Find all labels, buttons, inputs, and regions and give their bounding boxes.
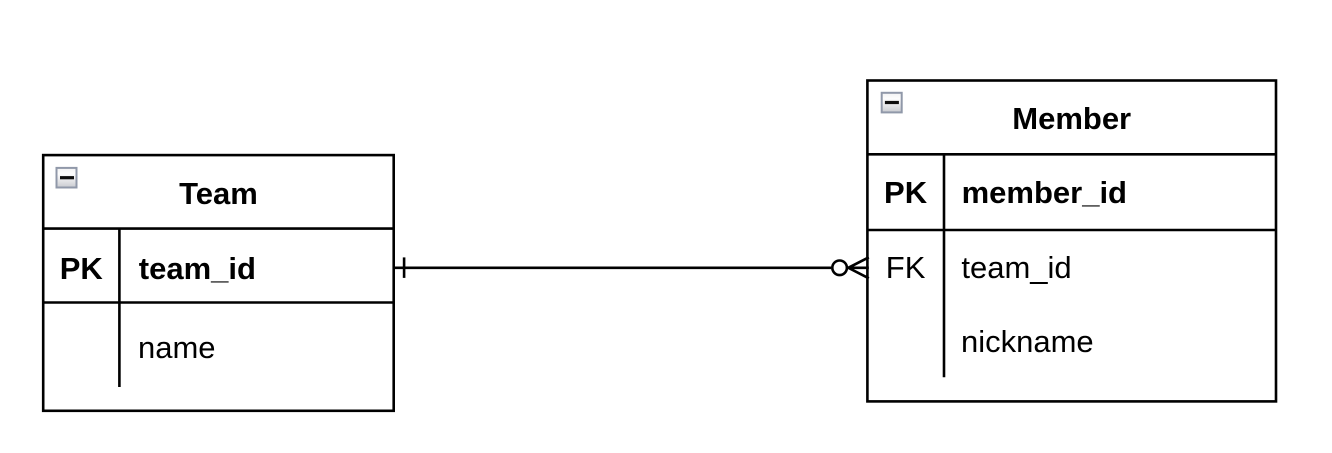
Member row3 field nickname bbox=[961, 324, 1094, 359]
one marker tick at Team end bbox=[403, 257, 406, 278]
svg-text:name: name bbox=[138, 330, 216, 365]
Team row2 field name bbox=[138, 330, 216, 365]
Member row1 field member_id bbox=[962, 175, 1127, 210]
svg-text:Team: Team bbox=[179, 176, 258, 211]
svg-text:team_id: team_id bbox=[961, 250, 1071, 285]
Member title bbox=[1012, 101, 1131, 136]
svg-text:team_id: team_id bbox=[139, 251, 256, 286]
entity Team outline bbox=[43, 155, 394, 411]
Team row1 field team_id bbox=[139, 251, 256, 286]
Member row2 key label FK bbox=[886, 250, 926, 285]
Team PK column divider bbox=[118, 229, 121, 387]
entity Member outline bbox=[867, 81, 1276, 402]
svg-text:member_id: member_id bbox=[962, 175, 1127, 210]
Team collapse button bbox=[57, 168, 77, 188]
svg-text:PK: PK bbox=[60, 251, 104, 286]
svg-text:PK: PK bbox=[884, 175, 928, 210]
wire relationship Team-Member bbox=[394, 266, 832, 269]
Member row2 field team_id bbox=[961, 250, 1071, 285]
Member collapse button bbox=[882, 93, 902, 113]
svg-text:FK: FK bbox=[886, 250, 926, 285]
Member PK column divider bbox=[943, 154, 946, 377]
Team row1 key label PK bbox=[60, 251, 104, 286]
Team header divider bbox=[43, 227, 394, 230]
Member header divider bbox=[867, 153, 1276, 156]
svg-text:Member: Member bbox=[1012, 101, 1131, 136]
crow's foot at Member end bbox=[848, 257, 869, 278]
Team row divider bbox=[43, 301, 394, 304]
svg-text:nickname: nickname bbox=[961, 324, 1094, 359]
Member row divider bbox=[867, 229, 1276, 232]
Member row1 key label PK bbox=[884, 175, 928, 210]
zero-or-many circle at Member end bbox=[832, 261, 847, 276]
Team title bbox=[179, 176, 258, 211]
